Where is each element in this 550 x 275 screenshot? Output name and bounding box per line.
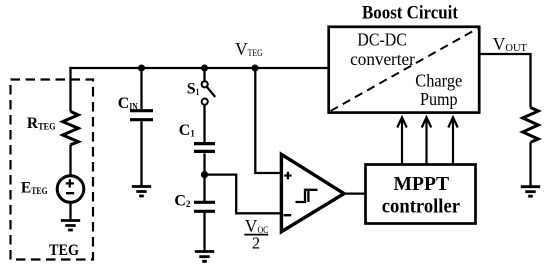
svg-text:Charge: Charge <box>415 71 462 91</box>
label Charge Pump <box>415 71 462 110</box>
svg-text:VTEG: VTEG <box>235 39 263 59</box>
voltage source ETEG <box>57 176 84 203</box>
capacitor CIN <box>130 111 153 120</box>
wire VOUT <box>479 54 531 108</box>
capacitor C2 <box>194 202 215 211</box>
wire <box>529 142 531 186</box>
wire TEG branch down <box>69 67 71 112</box>
svg-text:TEG: TEG <box>49 242 79 259</box>
svg-text:Boost Circuit: Boost Circuit <box>362 3 459 24</box>
wire <box>69 202 71 220</box>
wire comparator output <box>344 192 365 194</box>
wire <box>203 68 205 81</box>
svg-text:MPPT: MPPT <box>394 173 450 195</box>
svg-text:Pump: Pump <box>420 89 458 109</box>
label MPPT controller <box>382 173 460 218</box>
svg-text:S1: S1 <box>187 80 200 97</box>
wire to comparator plus input <box>255 68 281 173</box>
wire VTEG rail <box>69 67 329 69</box>
MPPT controller box <box>366 165 476 224</box>
resistor RLOAD <box>523 108 539 143</box>
capacitor C1 <box>194 144 215 152</box>
wire <box>203 175 205 201</box>
wire <box>140 68 142 109</box>
svg-text:DC-DC: DC-DC <box>357 30 406 50</box>
resistor RTEG <box>63 112 79 145</box>
ground TEG <box>61 221 80 231</box>
svg-text:ETEG: ETEG <box>21 180 48 197</box>
junction node Voc2 <box>201 171 208 178</box>
svg-text:VOUT: VOUT <box>493 34 527 54</box>
svg-text:C2: C2 <box>174 193 191 210</box>
svg-text:converter: converter <box>350 49 415 69</box>
junction node CIN <box>138 65 145 72</box>
label VOC over 2 <box>244 216 268 253</box>
op-amp comparator <box>281 154 344 231</box>
svg-text:2: 2 <box>252 234 260 253</box>
dashed divider <box>331 29 478 112</box>
control arrow 3 <box>448 117 457 164</box>
wire <box>203 105 205 143</box>
label DC-DC converter <box>350 30 415 70</box>
ground RLOAD <box>521 187 540 197</box>
switch S1 <box>202 81 216 104</box>
wire <box>203 213 205 251</box>
wire <box>203 153 205 174</box>
svg-text:RTEG: RTEG <box>27 115 56 132</box>
control arrow 2 <box>422 117 431 164</box>
Boost Circuit box <box>329 27 480 113</box>
TEG dashed box <box>11 80 94 260</box>
ground CIN <box>132 187 151 197</box>
wire to comparator minus input <box>205 175 282 214</box>
wire <box>140 121 142 186</box>
ground C2 <box>195 252 214 262</box>
svg-text:C1: C1 <box>179 122 196 139</box>
svg-text:CIN: CIN <box>118 95 138 112</box>
junction node VTEG <box>252 65 259 72</box>
junction node S1 <box>201 65 208 72</box>
control arrow 1 <box>397 117 406 164</box>
svg-text:controller: controller <box>382 196 460 218</box>
wire <box>69 145 71 176</box>
